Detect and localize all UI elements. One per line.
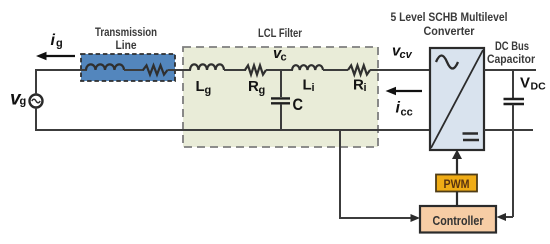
converter DC symbol [463,134,480,141]
wire: Rg through node vc to Li [266,69,293,71]
svg-text:DC: DC [531,81,547,93]
svg-text:V: V [520,75,530,92]
inductor Lg [190,64,224,70]
arrow ig [36,52,75,60]
svg-text:L: L [303,77,312,94]
resistor Ri [348,65,370,74]
label: 5 Level SCHB Multilevel Converter heading [391,12,508,38]
label: DC Bus Capacitor heading [487,41,535,66]
svg-text:R: R [353,77,364,94]
svg-text:c: c [281,52,287,64]
arrow icc [386,87,423,95]
wire: controller to PWM [456,192,458,207]
voltage source Vg [30,95,43,108]
capacitor C lead (bottom) [280,104,282,130]
svg-text:5 Level SCHB Multilevel: 5 Level SCHB Multilevel [391,12,508,24]
wire: bottom rail [36,129,430,131]
wire: TL resistor to Lg coil [168,69,192,71]
svg-text:Transmission: Transmission [95,27,157,39]
svg-text:cv: cv [400,49,413,61]
svg-text:C: C [293,95,304,114]
svg-text:LCL Filter: LCL Filter [258,28,302,40]
svg-text:Converter: Converter [424,26,475,38]
svg-text:Line: Line [116,40,137,52]
inductor (transmission line) [86,64,124,70]
wire: Ri to converter [370,69,430,71]
label VDC [520,75,546,93]
label vc (node) [273,45,287,64]
wire: converter right top rail [484,69,536,71]
wire: top rail segment source to TL coil [35,69,87,71]
svg-text:L: L [196,78,205,95]
svg-text:g: g [20,96,27,108]
LCL filter box [183,47,378,147]
wire: right feed into controller [497,213,514,221]
wire: PWM to converter with arrow [452,150,462,176]
svg-text:DC Bus: DC Bus [495,41,529,53]
svg-text:g: g [205,85,212,97]
resistor (transmission line) [143,65,168,74]
transmission line box [81,54,175,81]
svg-text:PWM: PWM [444,179,470,191]
label icc [396,100,413,119]
PWM box [436,175,477,192]
svg-text:Capacitor: Capacitor [487,54,535,66]
wire: TL coil to TL resistor [124,69,144,71]
capacitor C lead (top) [280,70,282,97]
wire: DC cap bottom lead down to controller feed [512,105,514,218]
svg-text:Controller: Controller [433,214,484,228]
label C [293,95,304,114]
inductor Li [292,65,323,70]
wire: Lg to Rg [224,69,246,71]
label ig [51,32,63,50]
label Rg [248,78,265,97]
DC bus capacitor lead (top) [512,70,514,98]
svg-text:i: i [364,82,367,94]
resistor Rg [245,65,266,74]
label: Transmission Line heading [95,27,157,52]
wire: left vertical (source top lead) [35,70,37,95]
wire: converter right bottom rail [484,129,533,131]
label Li [303,77,315,95]
svg-text:g: g [259,85,266,97]
svg-text:i: i [51,32,56,49]
label Ri [353,77,367,95]
converter AC sine symbol [436,56,458,69]
capacitor C plates [271,98,290,103]
label Lg [196,78,212,97]
wire: left vertical (source bottom lead) [35,108,37,132]
svg-text:i: i [312,82,315,94]
svg-text:cc: cc [401,107,413,119]
label vg [10,89,26,110]
converter U1 box [430,48,484,150]
controller box [420,206,496,233]
svg-text:R: R [248,78,259,95]
wire: Li to Ri [323,69,348,71]
label: LCL Filter heading [258,28,302,40]
arrow into controller left [411,214,421,222]
label vcv [392,43,413,62]
svg-text:g: g [56,38,63,50]
DC bus capacitor plates [504,99,525,104]
wire: left feed down from bottom rail [340,130,413,218]
